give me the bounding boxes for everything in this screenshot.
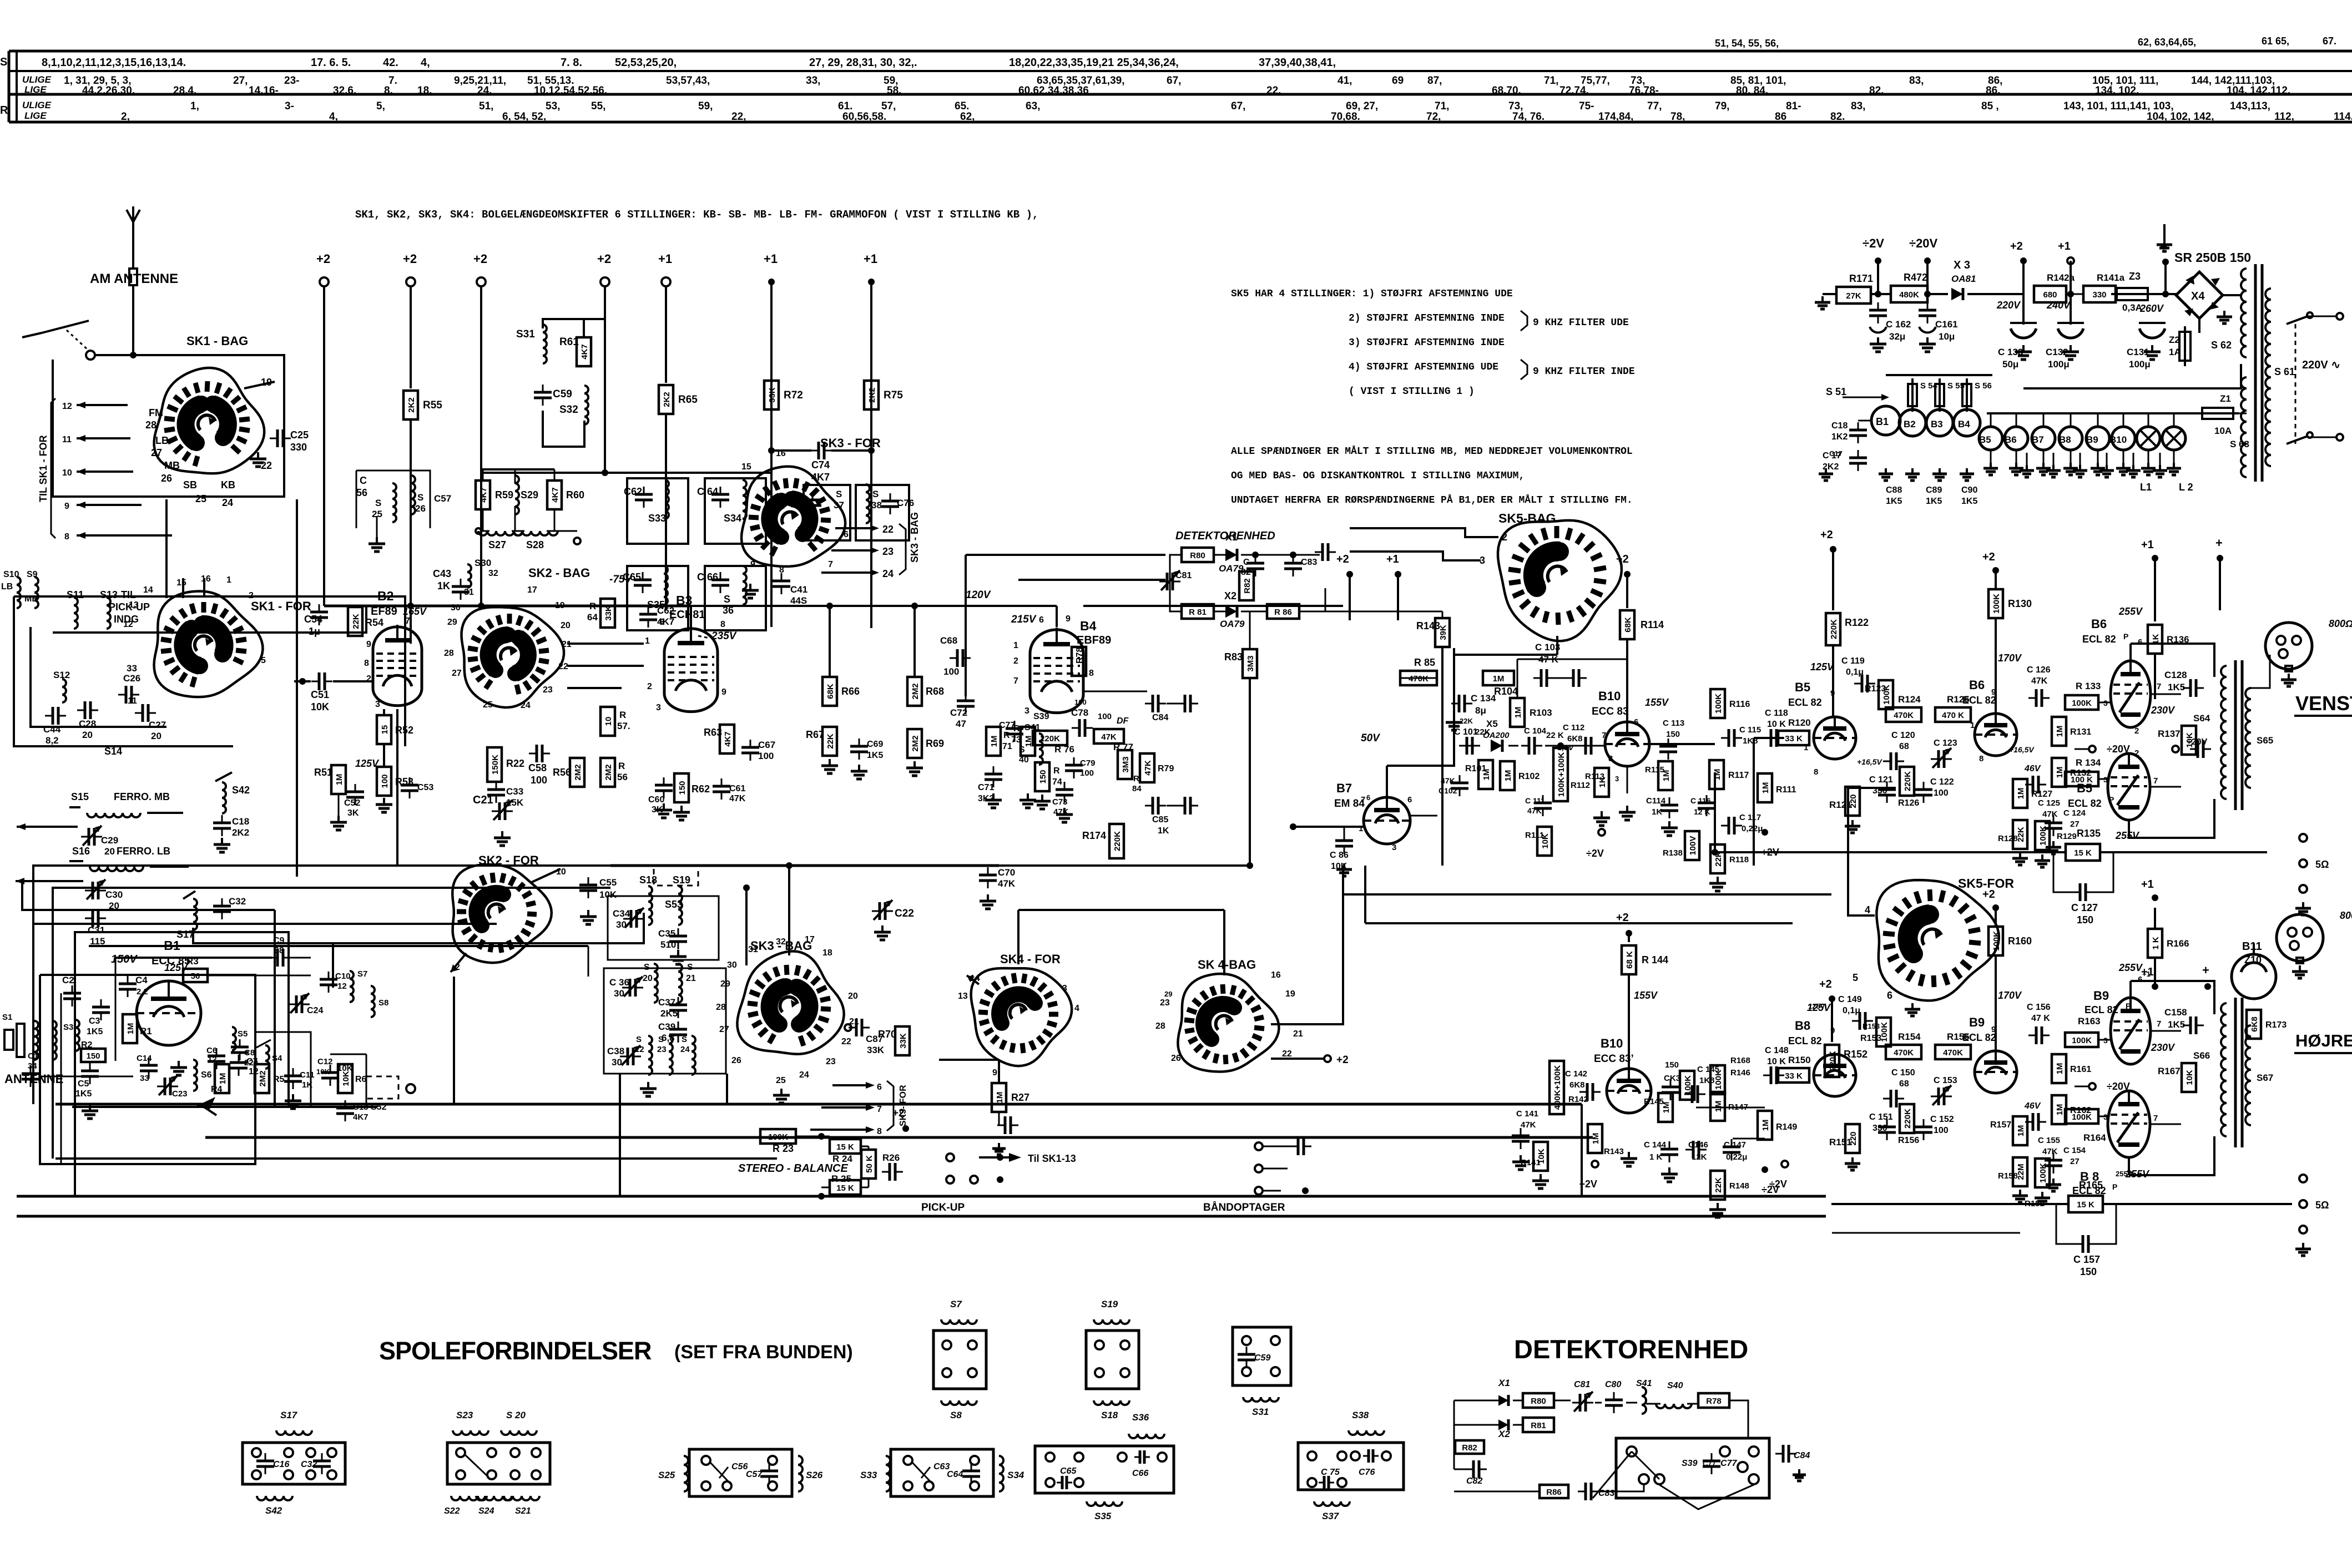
- ground C70: [980, 894, 996, 909]
- wire b4 right bus: [1083, 606, 1343, 866]
- svg-text:B10: B10: [2109, 434, 2127, 445]
- svg-text:15: 15: [176, 578, 186, 588]
- node label 125V B8: [1807, 1002, 1831, 1013]
- node C78 100: [1071, 698, 1112, 737]
- svg-text:R153: R153: [1860, 1034, 1881, 1043]
- node R126 220K: [1898, 767, 1919, 808]
- node C118 10K: [1763, 709, 1788, 747]
- node coilbox S33 C63: [860, 1449, 1024, 1496]
- node S29 coil: [515, 476, 538, 514]
- node terminal +1 2519: [1386, 553, 1401, 620]
- node table row3 odd numbers: [1508, 100, 1523, 112]
- svg-text:C84: C84: [1794, 1451, 1810, 1460]
- svg-text:C32: C32: [229, 896, 246, 907]
- node table row2 odd numbers: [527, 75, 574, 87]
- node R160 100K: [1988, 927, 2032, 1051]
- node table row3 odd numbers: [1786, 100, 1801, 112]
- svg-text:+2: +2: [1616, 912, 1629, 924]
- wire lower b10 right: [1696, 1107, 1765, 1139]
- svg-text:6: 6: [659, 618, 664, 627]
- svg-text:C 101: C 101: [1454, 727, 1478, 737]
- svg-text:480K: 480K: [1899, 290, 1919, 300]
- node table row2 odd numbers: [1988, 75, 2002, 87]
- svg-text:71,: 71,: [1435, 100, 1449, 112]
- node C73 47K: [1052, 782, 1073, 817]
- svg-text:84: 84: [1132, 784, 1142, 793]
- node R26 50K: [861, 1150, 903, 1181]
- node table row3 odd numbers: [190, 100, 199, 112]
- svg-text:C 17: C 17: [1823, 451, 1841, 461]
- node label B8 output: [2072, 1170, 2117, 1196]
- svg-text:10μ: 10μ: [1939, 331, 1955, 342]
- wire mesh b2 drop: [396, 709, 398, 866]
- svg-text:S16: S16: [72, 846, 90, 857]
- svg-text:6: 6: [1887, 990, 1892, 1001]
- node S13 coil: [100, 589, 118, 629]
- node R75 2K2: [864, 381, 903, 409]
- tube B10 lower: [1607, 1069, 1651, 1113]
- node terminal +1 x1200: [658, 252, 672, 286]
- node table row1 numbers: [383, 57, 398, 69]
- svg-text:TIL: TIL: [121, 589, 136, 600]
- svg-text:28: 28: [145, 419, 157, 431]
- tube B2 EF89: [373, 625, 422, 706]
- svg-text:Z3: Z3: [2129, 271, 2141, 282]
- node S15 FERRO MB: [69, 791, 183, 817]
- node C154 27: [2045, 1146, 2086, 1174]
- svg-text:R80: R80: [1531, 1397, 1546, 1406]
- wire mesh sk1for wrap2: [233, 746, 234, 866]
- node C65 S35 cluster: [623, 566, 688, 630]
- node table row2 odd numbers: [666, 75, 710, 87]
- ground B3 area2: [673, 806, 690, 820]
- rotary SK4-FOR: [971, 968, 1072, 1066]
- svg-text:R143: R143: [1416, 620, 1440, 631]
- svg-text:B1: B1: [1876, 416, 1889, 427]
- svg-text:30: 30: [616, 919, 627, 930]
- ground C131: [2144, 345, 2161, 360]
- node table row2 even numbers: [477, 85, 492, 97]
- svg-text:C77: C77: [1703, 1459, 1716, 1468]
- svg-text:15: 15: [741, 462, 751, 472]
- node C58 100: [528, 745, 550, 786]
- svg-text:R122: R122: [1845, 617, 1869, 628]
- node table row3 even numbers: [2334, 111, 2352, 123]
- node note SK5 line1: [1231, 289, 1513, 300]
- node S20 coil: [643, 963, 658, 1003]
- svg-text:100K: 100K: [2072, 1112, 2092, 1122]
- wire b4 det link: [1083, 691, 1147, 753]
- svg-text:B8: B8: [2059, 434, 2071, 445]
- node C8 220: [231, 1039, 258, 1068]
- svg-text:1M: 1M: [1024, 736, 1033, 747]
- tube B3 ECH81: [664, 626, 718, 712]
- svg-text:7: 7: [1013, 676, 1018, 686]
- svg-text:28: 28: [716, 1003, 726, 1012]
- svg-text:10K: 10K: [311, 701, 329, 712]
- svg-text:7: 7: [877, 1105, 882, 1114]
- svg-text:+1: +1: [1386, 553, 1399, 565]
- node table row2 odd numbers: [1392, 75, 1404, 87]
- svg-text:3M3: 3M3: [1246, 655, 1255, 671]
- svg-text:75-: 75-: [1579, 100, 1594, 112]
- node R74 150: [1035, 762, 1062, 791]
- svg-text:65.: 65.: [955, 100, 969, 112]
- node terminal +2 x584: [316, 252, 330, 286]
- svg-text:33: 33: [127, 663, 137, 674]
- rotary SK5-FOR: [1876, 880, 1998, 1000]
- wire mesh lower bus: [643, 913, 644, 943]
- svg-text:1M: 1M: [126, 1023, 135, 1035]
- svg-text:470K: 470K: [1894, 1048, 1914, 1058]
- node table row2 even numbers: [417, 85, 432, 97]
- svg-text:B4: B4: [1080, 619, 1097, 633]
- svg-text:22K: 22K: [351, 614, 361, 629]
- svg-text:1M: 1M: [1761, 1120, 1770, 1131]
- wire mesh sk3bag col: [789, 1058, 790, 1104]
- svg-text:S19: S19: [673, 874, 690, 886]
- node R123 100K: [1865, 680, 1893, 709]
- node C89 1K5: [1926, 485, 1942, 506]
- node table row3 odd numbers: [546, 100, 560, 112]
- node C33 15K: [487, 782, 524, 808]
- svg-text:44S: 44S: [790, 595, 807, 606]
- wire B1 bottom bus: [72, 1106, 377, 1108]
- rotary SK5-BAG: [1498, 520, 1622, 641]
- node R104 1M: [1483, 671, 1518, 697]
- node C131 100u: [2127, 294, 2166, 370]
- svg-text:1M: 1M: [995, 1092, 1005, 1104]
- node C153 varcap: [1931, 1076, 1957, 1105]
- node S31 coil: [516, 325, 547, 363]
- svg-text:10K: 10K: [2185, 1070, 2194, 1085]
- node R158 22K: [1998, 1157, 2027, 1186]
- node C148 10K: [1763, 1046, 1789, 1084]
- svg-text:C 115: C 115: [1739, 725, 1761, 735]
- svg-text:R 25: R 25: [831, 1174, 851, 1184]
- svg-text:68 K: 68 K: [1625, 951, 1634, 969]
- svg-text:230V: 230V: [2151, 705, 2176, 716]
- svg-text:SR 250B 150: SR 250B 150: [2174, 250, 2251, 265]
- svg-text:23-: 23-: [284, 75, 299, 87]
- svg-text:C74: C74: [811, 459, 830, 471]
- node R67 22K: [806, 727, 837, 756]
- node label 255V B5o: [2115, 748, 2158, 841]
- ground R69: [906, 761, 923, 776]
- wire mesh lowleft5: [366, 1054, 367, 1107]
- svg-text:62,: 62,: [960, 111, 975, 123]
- node R6 10K: [338, 1064, 367, 1093]
- node R156 220K: [1898, 1104, 1919, 1145]
- node det C84: [1775, 1445, 1810, 1481]
- svg-text:S21: S21: [515, 1506, 531, 1516]
- ground heater: [2020, 453, 2034, 477]
- node R5 2M2: [255, 1064, 285, 1093]
- svg-text:2: 2: [2134, 748, 2139, 758]
- svg-text:R66: R66: [841, 686, 860, 697]
- wire plus down to xfmr: [2208, 610, 2220, 1003]
- node table row3 odd numbers: [698, 100, 713, 112]
- wire mid bus 1092: [324, 603, 691, 609]
- node table row2 odd numbers: [1037, 75, 1124, 87]
- svg-text:OG MED BAS- OG DISKANTKONTROL: OG MED BAS- OG DISKANTKONTROL I STILLING…: [1231, 471, 1525, 482]
- svg-text:R: R: [618, 761, 625, 771]
- wire vert 2870: [1592, 1137, 1593, 1216]
- node terminal +2 x867: [473, 252, 487, 286]
- node label 50V: [1361, 732, 1380, 744]
- svg-text:60,62,34,38,36: 60,62,34,38,36: [1018, 85, 1089, 97]
- svg-text:74: 74: [1052, 777, 1062, 787]
- svg-text:4,: 4,: [329, 111, 338, 123]
- svg-text:+1: +1: [2141, 539, 2154, 551]
- svg-text:R 23: R 23: [773, 1143, 794, 1154]
- wire B1 interconnect: [115, 958, 366, 1061]
- node R55 2K2: [403, 391, 442, 419]
- svg-text:ECL 82: ECL 82: [2085, 1004, 2118, 1015]
- svg-text:1M: 1M: [1761, 782, 1770, 794]
- svg-text:7: 7: [2153, 1114, 2158, 1123]
- svg-text:X1: X1: [1225, 532, 1238, 543]
- wire heater mini: [1843, 397, 1886, 421]
- svg-text:15: 15: [380, 725, 390, 735]
- node C56 S25 cluster: [356, 471, 451, 552]
- node table row3 even numbers: [731, 111, 746, 123]
- svg-text:220K: 220K: [1113, 831, 1122, 851]
- svg-text:68K: 68K: [826, 684, 835, 699]
- svg-text:6: 6: [877, 1083, 882, 1092]
- node note SK1-SK4: [355, 209, 1038, 221]
- ground b9 area: [2012, 1178, 2061, 1205]
- node terminal +1 x1390: [764, 252, 778, 285]
- svg-text:C81: C81: [1574, 1380, 1590, 1389]
- node label 255V B9: [2118, 962, 2143, 984]
- node table row2 even numbers: [82, 85, 135, 97]
- svg-text:C 151: C 151: [1869, 1112, 1893, 1122]
- wire SK1 box: [53, 355, 284, 497]
- svg-text:C 154: C 154: [2063, 1146, 2086, 1155]
- svg-text:C32: C32: [301, 1460, 317, 1469]
- svg-text:B7: B7: [2032, 434, 2044, 445]
- svg-text:+2: +2: [1336, 1054, 1349, 1066]
- svg-text:C161: C161: [1935, 319, 1958, 330]
- svg-text:255V: 255V: [2118, 606, 2143, 617]
- svg-text:R151: R151: [1829, 1137, 1852, 1147]
- node B10 pins: [1602, 717, 1638, 783]
- node table row3 even numbers: [2147, 111, 2214, 123]
- svg-text:10: 10: [62, 468, 72, 478]
- svg-text:TIL SK1 - FOR: TIL SK1 - FOR: [38, 435, 49, 502]
- svg-text:150: 150: [1665, 1060, 1679, 1070]
- svg-text:82,: 82,: [1869, 85, 1884, 97]
- node label 230V b9: [2151, 1042, 2176, 1053]
- node table row3 even numbers: [329, 111, 338, 123]
- wire +1 1200 down: [665, 286, 667, 383]
- svg-text:C27: C27: [149, 720, 166, 730]
- svg-text:29: 29: [1164, 990, 1172, 998]
- svg-text:47K: 47K: [2042, 1147, 2058, 1156]
- node R164 100K: [2065, 1109, 2108, 1143]
- node label -20V: [2075, 743, 2130, 755]
- tube B8 input: [1814, 1054, 1856, 1096]
- svg-text:23: 23: [1160, 998, 1170, 1008]
- svg-text:S11: S11: [67, 589, 84, 600]
- svg-text:S 20: S 20: [506, 1410, 526, 1420]
- svg-text:R142: R142: [1568, 1095, 1588, 1104]
- svg-text:R62: R62: [692, 783, 710, 795]
- node R73 1M: [1011, 724, 1035, 756]
- wire psu row2: [2023, 291, 2178, 297]
- node table row2 even numbers: [173, 85, 196, 97]
- svg-text:OA79: OA79: [1220, 619, 1245, 629]
- node label -2V lower2: [1769, 1161, 1788, 1190]
- node R141 10K: [1521, 1142, 1548, 1171]
- node C41 44S: [773, 573, 807, 606]
- node label -2V lower: [1579, 1161, 1598, 1190]
- svg-text:80, 84.: 80, 84.: [1736, 85, 1768, 97]
- svg-text:22: 22: [635, 1045, 644, 1054]
- node R52 15K: [377, 715, 413, 744]
- svg-text:25: 25: [776, 1076, 786, 1085]
- ground B1 area1: [170, 1061, 187, 1075]
- svg-text:S7: S7: [357, 969, 367, 979]
- svg-text:SK4 - FOR: SK4 - FOR: [1000, 952, 1061, 966]
- svg-text:27: 27: [719, 1025, 729, 1034]
- wire rail d: [643, 943, 644, 977]
- svg-text:R115: R115: [1645, 765, 1664, 775]
- svg-text:32μ: 32μ: [1889, 331, 1905, 342]
- svg-text:17: 17: [527, 585, 537, 595]
- svg-text:9: 9: [1830, 1026, 1835, 1035]
- svg-text:S17: S17: [280, 1410, 298, 1420]
- wire right channel bus: [1832, 1232, 2020, 1234]
- svg-text:C41: C41: [790, 584, 807, 595]
- svg-text:27: 27: [452, 669, 462, 678]
- svg-text:53,57,43,: 53,57,43,: [666, 75, 710, 87]
- svg-text:C79: C79: [1080, 758, 1096, 768]
- node S54 fuse: [1908, 378, 1938, 412]
- node SK3-FOR pins: [741, 449, 849, 575]
- svg-text:ALLE SPÆNDINGER ER MÅLT I STIL: ALLE SPÆNDINGER ER MÅLT I STILLING MB, M…: [1231, 446, 1633, 457]
- svg-text:S13: S13: [100, 589, 118, 600]
- node C4 2,2: [119, 975, 148, 997]
- node table row2 odd numbers: [1909, 75, 1924, 87]
- svg-text:S30: S30: [475, 558, 491, 568]
- svg-text:B5: B5: [1795, 680, 1810, 694]
- svg-text:2: 2: [2134, 726, 2139, 736]
- svg-text:R79: R79: [1158, 764, 1174, 773]
- wire nest rect d: [274, 910, 276, 1107]
- svg-text:20: 20: [561, 621, 571, 630]
- svg-text:C81: C81: [1175, 571, 1192, 580]
- node label -1.5V: [1555, 743, 1574, 752]
- svg-text:+2: +2: [316, 252, 330, 266]
- svg-text:S53: S53: [665, 899, 683, 910]
- svg-text:50 K: 50 K: [865, 1155, 874, 1173]
- svg-text:8,2: 8,2: [46, 735, 59, 746]
- svg-text:R: R: [619, 710, 626, 720]
- svg-text:20: 20: [82, 730, 93, 740]
- ground R67: [821, 759, 867, 779]
- node label B9 input: [1962, 1015, 1996, 1043]
- wire ferro lb leads: [16, 878, 275, 910]
- svg-text:R138: R138: [1663, 848, 1683, 858]
- node SK4-BAG pins: [1155, 970, 1303, 1063]
- wire R135 loop: [1712, 849, 2267, 892]
- svg-text:10: 10: [604, 717, 613, 726]
- node det R78: [1698, 1393, 1729, 1408]
- node det X1: [1498, 1378, 1510, 1406]
- svg-text:SK3 - BAG: SK3 - BAG: [909, 512, 920, 563]
- svg-text:16: 16: [1271, 970, 1281, 980]
- svg-text:6: 6: [1366, 793, 1370, 802]
- node C125 47K: [2025, 776, 2060, 819]
- svg-text:1K5: 1K5: [75, 1089, 92, 1099]
- node R23 100K: [760, 1129, 796, 1154]
- node R144 68K: [1622, 945, 1668, 974]
- svg-text:73: 73: [1011, 735, 1021, 745]
- svg-text:C 117: C 117: [1739, 813, 1761, 822]
- node label 125V B1: [164, 962, 189, 973]
- node R122 220K: [1826, 613, 1869, 645]
- svg-text:50V: 50V: [1361, 732, 1380, 744]
- svg-text:47 K: 47 K: [2031, 1014, 2050, 1023]
- svg-text:20: 20: [848, 992, 858, 1001]
- node R80 box: [1182, 548, 1214, 562]
- svg-text:46V: 46V: [2024, 1101, 2041, 1111]
- wire +2 740 down: [410, 286, 412, 388]
- node table row2 odd numbers: [454, 75, 506, 87]
- node label 235V: [698, 630, 737, 642]
- node terminal plus top: [2215, 536, 2223, 610]
- node R57 10: [600, 707, 630, 736]
- svg-text:C22: C22: [895, 908, 914, 919]
- node pickup terminals: [946, 1154, 1003, 1183]
- svg-text:S 56: S 56: [1975, 381, 1992, 391]
- svg-text:S: S: [836, 489, 842, 499]
- svg-text:C12: C12: [317, 1057, 333, 1066]
- svg-text:C11: C11: [300, 1070, 315, 1080]
- wire R27 up: [939, 1060, 999, 1082]
- wire mesh b7 col: [1387, 844, 1582, 866]
- wire R55 down: [410, 421, 412, 644]
- node table row3 even numbers: [2274, 111, 2294, 123]
- svg-text:R111: R111: [1525, 831, 1544, 840]
- svg-text:7: 7: [1602, 731, 1606, 740]
- node C7 12: [230, 1055, 259, 1076]
- wire mid bus 852: [324, 472, 481, 473]
- svg-text:220K: 220K: [1903, 1109, 1912, 1129]
- svg-text:47K: 47K: [1521, 1120, 1536, 1130]
- svg-text:11: 11: [62, 435, 72, 444]
- svg-text:S: S: [636, 1035, 642, 1044]
- node R145 1M: [1644, 1093, 1673, 1122]
- svg-text:FM: FM: [149, 407, 163, 418]
- node C155 47K: [2025, 1113, 2060, 1156]
- wire mesh h sk2for: [297, 876, 497, 877]
- svg-text:74, 76.: 74, 76.: [1512, 111, 1545, 123]
- svg-text:C57: C57: [746, 1470, 763, 1479]
- svg-text:23: 23: [826, 1057, 836, 1066]
- svg-text:R150: R150: [1788, 1055, 1811, 1065]
- svg-text:2M2: 2M2: [604, 764, 613, 780]
- node B1 heater: [1871, 406, 1900, 435]
- svg-text:2K2: 2K2: [407, 397, 416, 413]
- svg-text:+2: +2: [1336, 553, 1349, 565]
- node antenna mast: [127, 206, 140, 244]
- node table row2 even numbers: [249, 85, 279, 97]
- svg-text:8: 8: [877, 1127, 882, 1136]
- node label B2: [371, 589, 427, 618]
